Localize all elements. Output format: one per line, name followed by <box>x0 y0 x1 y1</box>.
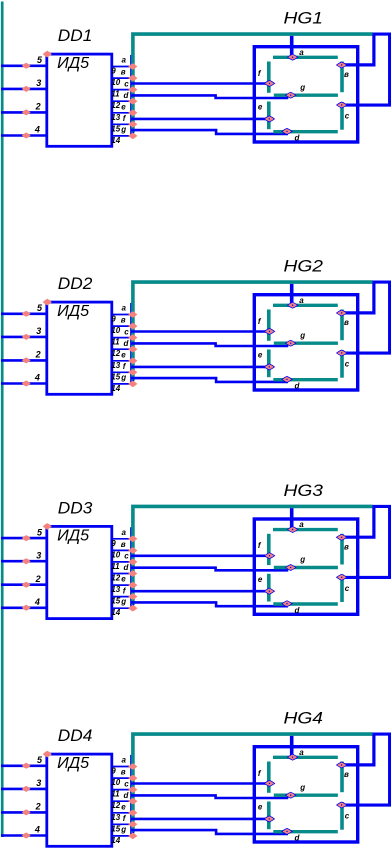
pin junction at tab 7 of DD2 <box>128 381 137 388</box>
wire stub to pin g junction of DD3 <box>132 604 134 608</box>
svg-text:c: c <box>345 584 350 593</box>
svg-text:12: 12 <box>111 574 120 583</box>
segment g of HG3 <box>274 566 338 569</box>
pin junction at tab 2 of DD4 <box>128 775 137 782</box>
svg-text:c: c <box>124 552 129 561</box>
segment e of HG1 <box>267 102 271 130</box>
terminal of segment g HG4 <box>286 792 296 798</box>
svg-text:9: 9 <box>111 539 116 548</box>
wire bus to segment b HG4 <box>345 735 374 765</box>
svg-text:14: 14 <box>111 836 120 845</box>
terminal of segment b HG1 <box>336 62 346 68</box>
junction on input pin 4 <box>22 381 31 387</box>
svg-text:13: 13 <box>111 361 120 370</box>
junction on input pin 2 <box>22 809 31 815</box>
indicator HG1 body <box>254 47 357 142</box>
wire input pin 4 of DD2 <box>1 382 46 385</box>
svg-text:c: c <box>124 779 129 788</box>
svg-text:11: 11 <box>111 338 120 347</box>
svg-text:в: в <box>121 768 126 777</box>
wire pin c DD1 to segment f HG1 <box>131 82 268 85</box>
pin tab outline right side of DD1 <box>130 55 132 136</box>
wire bus to segment a HG1 <box>290 36 294 56</box>
pin junction at tab 4 of DD2 <box>128 346 137 353</box>
svg-text:f: f <box>123 586 127 595</box>
wire input pin 3 of DD3 <box>1 560 46 563</box>
svg-text:f: f <box>123 114 127 123</box>
pin junction at tab 2 of DD1 <box>128 75 137 82</box>
pin junction at tab 1 of DD3 <box>128 536 137 543</box>
svg-text:в: в <box>344 770 349 779</box>
pin junction at tab 3 of DD1 <box>128 86 137 93</box>
svg-text:d: d <box>124 563 130 572</box>
indicator HG4 body <box>254 747 357 842</box>
junction on input pin 5 <box>22 535 31 541</box>
junction on input pin 4 <box>22 133 31 139</box>
wire input pin 4 of DD1 <box>1 134 46 137</box>
svg-text:15: 15 <box>111 372 120 381</box>
bus wire (teal) from DD1 to HG1 <box>133 34 373 133</box>
segment c of HG1 <box>340 102 344 130</box>
svg-text:15: 15 <box>111 597 120 606</box>
pin junction at tab 7 of DD3 <box>128 605 137 612</box>
segment e of HG4 <box>267 802 271 830</box>
segment b of HG3 <box>340 534 344 565</box>
wire input pin 4 of DD4 <box>1 834 46 837</box>
pin junction at tab 1 of DD4 <box>128 763 137 770</box>
svg-text:g: g <box>120 597 126 606</box>
svg-text:12: 12 <box>111 349 120 358</box>
svg-text:в: в <box>121 68 126 77</box>
svg-text:e: e <box>258 575 263 584</box>
svg-text:в: в <box>121 540 126 549</box>
wire bus to segment c HG4 <box>345 734 390 805</box>
svg-text:14: 14 <box>111 384 120 393</box>
wire input pin 2 of DD1 <box>1 111 46 114</box>
junction at DD3 top-left corner <box>43 523 52 530</box>
junction on input pin 5 <box>22 311 31 317</box>
segment d of HG3 <box>273 602 338 605</box>
terminal of segment a HG3 <box>287 527 297 533</box>
segment a of HG2 <box>273 304 338 307</box>
decoder DD3 body <box>47 526 112 618</box>
svg-text:e: e <box>258 351 263 360</box>
terminal of segment a HG4 <box>287 754 297 760</box>
segment g of HG4 <box>274 794 338 797</box>
terminal of segment f HG4 <box>264 780 274 786</box>
svg-text:g: g <box>120 373 126 382</box>
pin junction at tab 3 of DD3 <box>128 559 137 566</box>
svg-text:4: 4 <box>34 597 40 607</box>
pin junction at tab 3 of DD2 <box>128 334 137 341</box>
bus wire (teal) from DD3 to HG3 <box>133 506 373 605</box>
svg-text:13: 13 <box>111 585 120 594</box>
wire input pin 2 of DD2 <box>1 359 46 362</box>
svg-text:d: d <box>124 91 130 100</box>
terminal of segment f HG1 <box>264 80 274 86</box>
wire bus to segment b HG1 <box>345 35 374 65</box>
pin junction at tab 4 of DD3 <box>128 570 137 577</box>
svg-text:10: 10 <box>111 550 120 559</box>
wire pin f DD4 to segment e HG4 <box>131 818 267 821</box>
bus wire (teal) from DD4 to HG4 <box>133 734 373 833</box>
pin junction at tab 7 of DD1 <box>128 133 137 140</box>
svg-text:g: g <box>299 331 305 340</box>
svg-text:HG3: HG3 <box>284 482 324 500</box>
pin junction at tab 5 of DD1 <box>128 110 137 117</box>
terminal of segment f HG2 <box>264 328 274 334</box>
svg-text:5: 5 <box>37 303 43 313</box>
svg-text:d: d <box>124 339 130 348</box>
svg-text:10: 10 <box>111 78 120 87</box>
pin junction at tab 5 of DD4 <box>128 810 137 817</box>
svg-text:в: в <box>121 316 126 325</box>
svg-text:f: f <box>123 814 127 823</box>
segment b of HG1 <box>340 62 344 93</box>
svg-text:4: 4 <box>34 125 40 135</box>
segment c of HG3 <box>340 574 344 602</box>
junction on input pin 3 <box>22 334 31 340</box>
pin junction at tab 6 of DD1 <box>128 121 137 128</box>
junction at DD4 top-left corner <box>43 751 52 758</box>
svg-text:DD2: DD2 <box>58 275 93 293</box>
svg-text:ИД5: ИД5 <box>57 303 89 320</box>
wire bus to segment a HG3 <box>290 508 294 528</box>
wire bus to segment b HG2 <box>345 283 374 313</box>
svg-text:14: 14 <box>111 608 120 617</box>
terminal of segment d HG1 <box>282 128 292 134</box>
pin junction at tab 6 of DD3 <box>128 593 137 600</box>
svg-text:2: 2 <box>35 802 41 812</box>
decoder DD1 body <box>47 54 112 146</box>
wire stub to pin g junction of DD1 <box>132 132 134 136</box>
indicator HG3 body <box>254 519 357 614</box>
svg-text:4: 4 <box>34 373 40 383</box>
terminal of segment g HG1 <box>286 92 296 98</box>
svg-text:15: 15 <box>111 824 120 833</box>
terminal of segment b HG4 <box>336 762 346 768</box>
terminal of segment d HG3 <box>282 601 292 607</box>
svg-text:11: 11 <box>111 790 120 799</box>
wire stub to pin g junction of DD4 <box>132 832 134 836</box>
terminal of segment a HG2 <box>287 302 297 308</box>
decoder DD4 body <box>47 754 112 846</box>
wire input pin 2 of DD4 <box>1 811 46 814</box>
svg-text:d: d <box>124 791 130 800</box>
segment b of HG4 <box>340 762 344 793</box>
svg-text:HG1: HG1 <box>284 10 324 28</box>
wire input pin 5 of DD4 <box>1 764 46 767</box>
junction on input pin 2 <box>22 582 31 588</box>
junction on input pin 3 <box>22 786 31 792</box>
svg-text:e: e <box>121 102 126 111</box>
wire bus to segment c HG2 <box>345 282 390 353</box>
svg-text:a: a <box>299 296 304 305</box>
terminal of segment d HG2 <box>282 376 292 382</box>
svg-text:15: 15 <box>111 124 120 133</box>
pin tab outline right side of DD4 <box>130 755 132 836</box>
bus wire vertical (teal) left edge <box>1 2 4 838</box>
pin junction at tab 7 of DD4 <box>128 833 137 840</box>
wire bus to segment a HG2 <box>290 284 294 304</box>
svg-text:13: 13 <box>111 113 120 122</box>
terminal of segment b HG2 <box>336 310 346 316</box>
wire bus to segment b HG3 <box>345 508 374 538</box>
wire input pin 3 of DD1 <box>1 88 46 91</box>
svg-text:в: в <box>344 318 349 327</box>
terminal of segment e HG4 <box>264 816 274 822</box>
svg-text:c: c <box>124 327 129 336</box>
svg-text:ИД5: ИД5 <box>57 527 89 544</box>
segment d of HG4 <box>273 830 338 833</box>
junction on input pin 2 <box>22 357 31 363</box>
svg-text:5: 5 <box>37 527 43 537</box>
wire bus to segment a HG4 <box>290 736 294 756</box>
wire pin g DD2 to segment d HG2 <box>131 378 288 382</box>
svg-text:g: g <box>299 555 305 564</box>
svg-text:2: 2 <box>35 350 41 360</box>
terminal of segment c HG4 <box>337 802 347 808</box>
junction on input pin 3 <box>22 86 31 92</box>
pin junction at tab 4 of DD1 <box>128 98 137 105</box>
segment d of HG1 <box>273 130 338 133</box>
wire pin d DD1 to segment g HG1 <box>131 95 288 98</box>
segment e of HG3 <box>267 574 271 602</box>
svg-text:e: e <box>121 350 126 359</box>
junction on input pin 5 <box>22 763 31 769</box>
svg-text:e: e <box>258 803 263 812</box>
wire pin f DD2 to segment e HG2 <box>131 366 267 369</box>
wire input pin 4 of DD3 <box>1 606 46 609</box>
svg-text:3: 3 <box>36 326 41 336</box>
svg-text:3: 3 <box>36 778 41 788</box>
segment f of HG1 <box>267 62 271 93</box>
terminal of segment f HG3 <box>264 553 274 559</box>
terminal of segment c HG2 <box>337 350 347 356</box>
svg-text:9: 9 <box>111 767 116 776</box>
wire pin d DD2 to segment g HG2 <box>131 343 288 346</box>
segment b of HG2 <box>340 310 344 341</box>
pin junction at tab 4 of DD4 <box>128 798 137 805</box>
svg-text:a: a <box>122 304 127 313</box>
pin junction at tab 2 of DD2 <box>128 323 137 330</box>
wire input pin 5 of DD2 <box>1 312 46 315</box>
indicator HG2 body <box>254 295 357 390</box>
terminal of segment g HG2 <box>286 340 296 346</box>
svg-text:a: a <box>299 520 304 529</box>
terminal of segment e HG3 <box>264 588 274 594</box>
pin junction at tab 6 of DD2 <box>128 369 137 376</box>
segment f of HG2 <box>267 310 271 341</box>
junction on input pin 4 <box>22 605 31 611</box>
svg-text:DD4: DD4 <box>58 727 93 745</box>
terminal of segment g HG3 <box>286 565 296 571</box>
junction on input pin 5 <box>22 63 31 69</box>
svg-text:9: 9 <box>111 315 116 324</box>
segment g of HG1 <box>274 93 338 96</box>
segment d of HG2 <box>273 378 338 381</box>
svg-text:a: a <box>299 748 304 757</box>
wire input pin 2 of DD3 <box>1 583 46 586</box>
wire pin c DD2 to segment f HG2 <box>131 330 268 333</box>
terminal of segment c HG1 <box>337 102 347 108</box>
svg-text:4: 4 <box>34 825 40 835</box>
terminal of segment b HG3 <box>336 534 346 540</box>
svg-text:2: 2 <box>35 102 41 112</box>
pin junction at tab 6 of DD4 <box>128 821 137 828</box>
junction at DD1 top-left corner <box>43 51 52 58</box>
svg-text:9: 9 <box>111 67 116 76</box>
svg-text:ИД5: ИД5 <box>57 755 89 772</box>
wire pin g DD4 to segment d HG4 <box>131 830 288 834</box>
pin junction at tab 1 of DD1 <box>128 63 137 70</box>
svg-text:HG4: HG4 <box>284 710 324 728</box>
svg-text:ИД5: ИД5 <box>57 55 89 72</box>
wire pin d DD3 to segment g HG3 <box>131 568 288 571</box>
pin junction at tab 1 of DD2 <box>128 311 137 318</box>
segment c of HG2 <box>340 350 344 378</box>
svg-text:g: g <box>120 125 126 134</box>
svg-text:5: 5 <box>37 755 43 765</box>
wire pin c DD3 to segment f HG3 <box>131 554 268 557</box>
svg-text:c: c <box>345 360 350 369</box>
wire pin f DD1 to segment e HG1 <box>131 118 267 121</box>
wire stub to pin g junction of DD2 <box>132 380 134 384</box>
svg-text:12: 12 <box>111 101 120 110</box>
segment f of HG4 <box>267 762 271 793</box>
svg-text:g: g <box>120 825 126 834</box>
svg-text:11: 11 <box>111 90 120 99</box>
svg-text:e: e <box>121 802 126 811</box>
svg-text:10: 10 <box>111 326 120 335</box>
svg-text:в: в <box>344 542 349 551</box>
segment a of HG3 <box>273 528 338 531</box>
terminal of segment d HG4 <box>282 828 292 834</box>
svg-text:g: g <box>299 83 305 92</box>
junction on input pin 2 <box>22 109 31 115</box>
decoder DD2 body <box>47 302 112 394</box>
junction on input pin 3 <box>22 558 31 564</box>
wire pin d DD4 to segment g HG4 <box>131 795 288 798</box>
bus wire (teal) from DD2 to HG2 <box>133 282 373 381</box>
wire input pin 5 of DD1 <box>1 65 46 68</box>
svg-text:3: 3 <box>36 78 41 88</box>
svg-text:e: e <box>258 103 263 112</box>
pin junction at tab 2 of DD3 <box>128 547 137 554</box>
svg-text:c: c <box>345 112 350 121</box>
segment c of HG4 <box>340 802 344 830</box>
wire bus to segment c HG3 <box>345 506 390 577</box>
svg-text:g: g <box>299 783 305 792</box>
svg-text:HG2: HG2 <box>284 258 324 276</box>
svg-text:a: a <box>299 48 304 57</box>
segment g of HG2 <box>274 342 338 345</box>
svg-text:e: e <box>121 575 126 584</box>
junction on input pin 4 <box>22 833 31 839</box>
segment a of HG4 <box>273 756 338 759</box>
terminal of segment e HG2 <box>264 364 274 370</box>
svg-text:f: f <box>123 362 127 371</box>
wire input pin 3 of DD2 <box>1 336 46 339</box>
junction at DD2 top-left corner <box>43 299 52 306</box>
wire pin g DD3 to segment d HG3 <box>131 602 288 606</box>
segment a of HG1 <box>273 56 338 59</box>
svg-text:12: 12 <box>111 801 120 810</box>
pin tab outline right side of DD3 <box>130 527 132 608</box>
wire pin f DD3 to segment e HG3 <box>131 590 267 593</box>
terminal of segment a HG1 <box>287 54 297 60</box>
svg-text:10: 10 <box>111 778 120 787</box>
svg-text:в: в <box>344 70 349 79</box>
svg-text:2: 2 <box>35 574 41 584</box>
svg-text:c: c <box>345 812 350 821</box>
pin junction at tab 5 of DD3 <box>128 582 137 589</box>
svg-text:a: a <box>122 756 127 765</box>
svg-text:13: 13 <box>111 813 120 822</box>
pin junction at tab 5 of DD2 <box>128 358 137 365</box>
svg-text:3: 3 <box>36 550 41 560</box>
terminal of segment c HG3 <box>337 574 347 580</box>
terminal of segment e HG1 <box>264 116 274 122</box>
wire input pin 3 of DD4 <box>1 788 46 791</box>
wire bus to segment c HG1 <box>345 34 390 105</box>
svg-text:14: 14 <box>111 136 120 145</box>
pin tab outline right side of DD2 <box>130 303 132 384</box>
svg-text:DD3: DD3 <box>58 499 93 517</box>
svg-text:a: a <box>122 528 127 537</box>
svg-text:11: 11 <box>111 562 120 571</box>
wire pin c DD4 to segment f HG4 <box>131 782 268 785</box>
segment e of HG2 <box>267 350 271 378</box>
svg-text:a: a <box>122 56 127 65</box>
wire input pin 5 of DD3 <box>1 537 46 540</box>
svg-text:c: c <box>124 79 129 88</box>
pin junction at tab 3 of DD4 <box>128 786 137 793</box>
svg-text:DD1: DD1 <box>58 27 93 45</box>
segment f of HG3 <box>267 534 271 565</box>
svg-text:5: 5 <box>37 55 43 65</box>
wire pin g DD1 to segment d HG1 <box>131 130 288 134</box>
